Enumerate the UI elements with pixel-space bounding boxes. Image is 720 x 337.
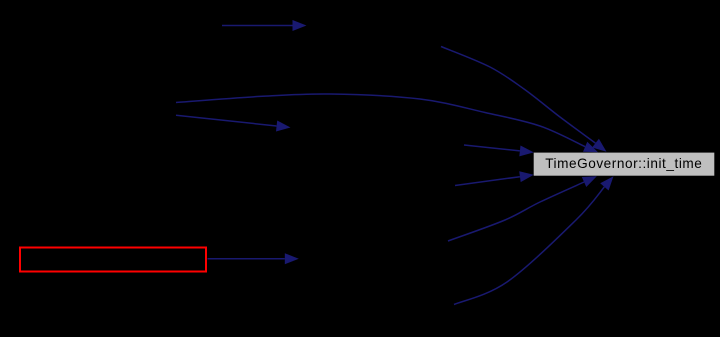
node: TimeGovernor::init_time (current node, grey filled) [534,153,715,176]
wire edge A (caller to hidden node, horizontal top arrow) [222,20,307,31]
wire edge E (short arrow into left edge of node, upper) [464,145,534,156]
wire edge I (arrow from red highlighted node to hidden middle node) [208,253,299,264]
svg-text:TimeGovernor::init_time: TimeGovernor::init_time [545,156,702,171]
wire edge C (long shallow curve from left node into top of node) [176,94,598,152]
wire edge H (long curve from bottom into bottom of node, steep) [454,176,614,304]
wire edge G (curve from below into bottom of node, shallow) [448,176,597,241]
node: red highlighted caller box (label hidden on black) [20,248,206,272]
wire edge B (curve from upper area into top of node) [441,47,607,152]
wire edge D (arrow from left node to hidden middle node) [176,115,291,131]
wire edge F (short arrow into bottom-left corner of node) [455,171,534,185]
